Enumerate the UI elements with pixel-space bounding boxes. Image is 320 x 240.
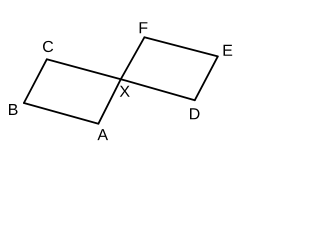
wire segment B-C (left quadrilateral left edge)	[24, 59, 47, 103]
node label B	[9, 104, 18, 115]
wire segment B-A (left quadrilateral bottom edge)	[24, 103, 99, 124]
wire segment C-X-D (straight line through crossing X)	[47, 59, 195, 100]
node label D	[190, 108, 199, 119]
node label A	[97, 129, 108, 140]
node label C	[43, 41, 53, 52]
wire segment E-D (right quadrilateral right edge)	[195, 56, 218, 100]
node label E	[224, 45, 233, 56]
node label F	[140, 22, 148, 33]
wire segment F-E (right quadrilateral top edge)	[144, 37, 217, 56]
wire segment A-X-F (straight line through crossing X)	[98, 37, 144, 123]
node label X	[120, 86, 130, 97]
